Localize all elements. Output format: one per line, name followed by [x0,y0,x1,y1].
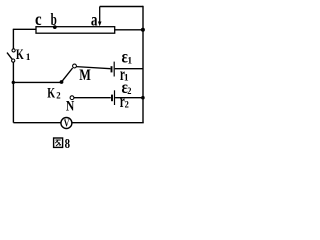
svg-text:1: 1 [26,53,31,63]
switch K1 terminal circle bottom [12,59,15,62]
wire: battery 1 to right vertical [115,68,143,70]
rheostat R box [36,27,115,34]
junction dot b [53,25,57,29]
svg-text:a: a [91,10,98,30]
rheostat slider arrow (terminal a) [99,7,101,23]
switch K1 blade [7,53,12,60]
svg-text:2: 2 [56,92,61,102]
svg-text:N: N [66,98,75,114]
svg-text:8: 8 [65,137,70,151]
svg-text:K: K [16,47,24,63]
wire: battery 2 to right vertical [115,97,143,99]
wire: N branch to battery 2 [74,97,111,99]
battery cell 2 negative plate (short thick) [111,95,113,102]
voltmeter V [61,118,72,129]
wire: rheostat right to junction [115,29,143,31]
switch K2 lever [62,68,72,81]
svg-text:K: K [47,86,55,102]
caption: hanzi TU (figure) drawn glyph [54,138,63,147]
svg-text:2: 2 [125,100,129,110]
wire: right vertical [142,6,144,123]
K2 pole junction dot [60,80,64,84]
wire: voltmeter to bottom right [72,122,144,124]
wire: top horizontal [100,6,143,8]
wire: left vertical lower segment [12,62,14,122]
svg-text:2: 2 [127,87,131,97]
wire: left vertical upper segment [12,29,14,48]
svg-text:V: V [64,119,70,130]
wire: K2 pole horizontal [13,81,60,83]
svg-text:1: 1 [127,57,132,67]
wire: top-left horizontal to rheostat [13,28,37,30]
junction dot battery 2 / right vertical [141,96,145,100]
svg-text:M: M [79,67,91,84]
wire: M branch to battery 1 [76,67,110,69]
wire: bottom left to voltmeter [13,122,60,124]
battery cell 1 negative plate (short thick) [111,66,113,72]
junction node at top right [141,28,145,32]
switch K2 contact M circle [73,64,77,68]
switch K1 terminal circle top [12,49,15,52]
switch K2 contact N circle [70,96,74,100]
battery cell 1 positive plate (long thin) [113,62,115,77]
junction dot on left vertical (K2 tap) [12,81,15,84]
svg-text:c: c [35,9,42,29]
battery cell 2 positive plate (long thin) [114,90,116,105]
